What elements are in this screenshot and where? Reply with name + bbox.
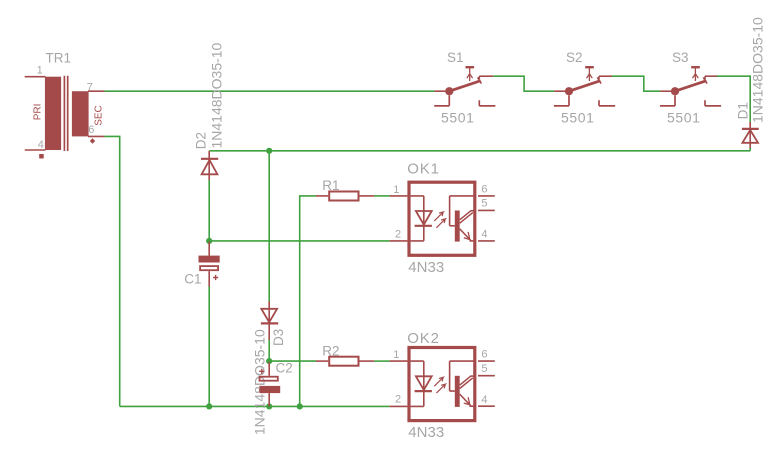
svg-text:S1: S1 bbox=[447, 50, 464, 65]
svg-text:OK1: OK1 bbox=[407, 161, 439, 178]
svg-text:6: 6 bbox=[481, 183, 487, 195]
svg-text:D3: D3 bbox=[271, 329, 286, 346]
wire D2 to C1 bbox=[208, 180, 210, 242]
svg-text:4N33: 4N33 bbox=[408, 424, 444, 441]
diode D2 bbox=[201, 151, 218, 180]
svg-text:1: 1 bbox=[393, 349, 399, 361]
svg-text:5501: 5501 bbox=[667, 110, 701, 126]
wire R1 corner down bbox=[300, 196, 316, 407]
switch S1 bbox=[434, 67, 495, 106]
switch S3 bbox=[660, 67, 721, 106]
junction C2-top bbox=[266, 358, 272, 364]
svg-text:5: 5 bbox=[481, 363, 487, 375]
transformer TR1 bbox=[25, 76, 105, 159]
svg-text:5501: 5501 bbox=[561, 110, 595, 126]
junction R-vert-bottom bbox=[297, 403, 303, 409]
wire C1 to bottom rail bbox=[208, 286, 210, 406]
svg-text:7: 7 bbox=[87, 82, 93, 94]
wire S3 to D1 bbox=[717, 76, 750, 122]
wire pin6 down left side bbox=[105, 136, 120, 406]
wire D3 to C2 junction bbox=[268, 340, 270, 365]
resistor R2 bbox=[316, 357, 374, 366]
svg-text:1N4148DO35-10: 1N4148DO35-10 bbox=[208, 42, 224, 148]
svg-text:2: 2 bbox=[395, 394, 401, 406]
resistor R1 bbox=[316, 192, 374, 201]
junction C1-bottom bbox=[206, 403, 212, 409]
junction rail-D3 bbox=[266, 148, 272, 154]
wire R2 to OK2 pin1 bbox=[374, 360, 389, 362]
svg-text:S3: S3 bbox=[672, 50, 689, 65]
svg-text:4: 4 bbox=[481, 229, 487, 241]
svg-text:OK2: OK2 bbox=[407, 330, 439, 347]
svg-text:SEC: SEC bbox=[94, 105, 105, 126]
wire S1 to S2 step bbox=[493, 76, 554, 91]
svg-text:PRI: PRI bbox=[32, 104, 43, 121]
wire rail N2 horizontal bbox=[209, 150, 750, 152]
svg-text:6: 6 bbox=[481, 349, 487, 361]
optocoupler OK2 bbox=[390, 348, 495, 421]
capacitor C1 bbox=[199, 242, 220, 287]
optocoupler OK1 bbox=[390, 182, 495, 255]
svg-text:4N33: 4N33 bbox=[408, 259, 444, 276]
svg-text:S2: S2 bbox=[566, 50, 583, 65]
svg-text:5: 5 bbox=[481, 198, 487, 210]
wire rail junction down to D3 bbox=[268, 151, 270, 302]
wire N3 to OK1 pin2 bbox=[209, 240, 389, 242]
wire N4 junction to R2 bbox=[269, 360, 316, 362]
svg-text:R2: R2 bbox=[322, 343, 339, 358]
junction C2-bottom bbox=[266, 403, 272, 409]
svg-text:TR1: TR1 bbox=[46, 50, 72, 65]
wire R1 to OK1 pin1 bbox=[374, 195, 389, 197]
svg-text:D1: D1 bbox=[736, 102, 751, 119]
svg-text:4: 4 bbox=[38, 139, 44, 151]
svg-text:1: 1 bbox=[37, 65, 43, 77]
svg-text:C1: C1 bbox=[184, 272, 201, 287]
svg-text:D2: D2 bbox=[194, 132, 209, 149]
svg-text:C2: C2 bbox=[276, 360, 293, 375]
junction C1-top bbox=[206, 238, 212, 244]
wire net N1 pin7 to S1 bbox=[105, 90, 435, 92]
wire D1 to rail bbox=[749, 148, 751, 151]
svg-text:1N4148DO35-10: 1N4148DO35-10 bbox=[750, 17, 766, 123]
svg-text:5501: 5501 bbox=[441, 110, 475, 126]
capacitor C2 bbox=[259, 362, 280, 406]
wire S2 to S3 step bbox=[612, 76, 660, 91]
svg-text:R1: R1 bbox=[322, 178, 339, 193]
svg-text:4: 4 bbox=[481, 394, 487, 406]
wire bottom rail N5 bbox=[120, 405, 390, 407]
svg-text:2: 2 bbox=[395, 228, 401, 240]
switch S2 bbox=[554, 67, 615, 106]
diode D3 bbox=[261, 301, 278, 340]
diode D1 bbox=[742, 122, 759, 148]
svg-text:1N4148DO35-10: 1N4148DO35-10 bbox=[251, 329, 267, 435]
svg-text:1: 1 bbox=[393, 184, 399, 196]
